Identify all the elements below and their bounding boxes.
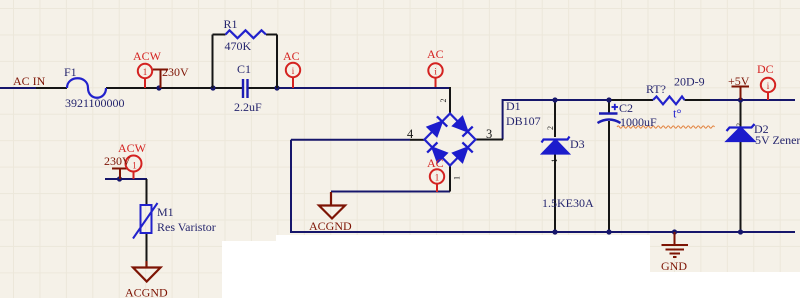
svg-text:D1: D1 — [506, 99, 521, 113]
svg-text:1: 1 — [143, 67, 148, 77]
svg-text:230V: 230V — [162, 65, 189, 79]
svg-text:ACW: ACW — [133, 49, 162, 63]
svg-text:1000uF: 1000uF — [620, 115, 657, 129]
svg-text:AC IN: AC IN — [13, 74, 46, 88]
svg-text:20D-9: 20D-9 — [674, 75, 705, 89]
svg-text:i: i — [434, 67, 437, 77]
svg-text:1.5KE30A: 1.5KE30A — [542, 196, 594, 210]
svg-text:t°: t° — [673, 107, 681, 121]
svg-text:C2: C2 — [619, 101, 633, 115]
svg-text:i: i — [292, 66, 295, 76]
svg-text:1: 1 — [435, 173, 440, 183]
svg-text:5V Zener: 5V Zener — [755, 133, 800, 147]
svg-text:2: 2 — [439, 99, 448, 103]
svg-text:AC: AC — [427, 156, 444, 170]
svg-text:2: 2 — [546, 126, 555, 130]
svg-text:RT?: RT? — [646, 82, 666, 96]
svg-text:D3: D3 — [570, 137, 585, 151]
svg-text:DB107: DB107 — [506, 114, 541, 128]
svg-text:2.2uF: 2.2uF — [234, 100, 262, 114]
svg-text:2: 2 — [736, 123, 744, 127]
svg-text:+5V: +5V — [728, 74, 750, 88]
svg-text:ACGND: ACGND — [309, 219, 352, 233]
svg-text:4: 4 — [407, 127, 414, 141]
svg-text:M1: M1 — [157, 205, 174, 219]
svg-text:R1: R1 — [224, 17, 238, 31]
svg-text:ACW: ACW — [118, 141, 147, 155]
svg-text:AC: AC — [427, 47, 444, 61]
svg-text:3921100000: 3921100000 — [65, 96, 125, 110]
svg-text:Res Varistor: Res Varistor — [157, 220, 216, 234]
svg-text:ACGND: ACGND — [125, 286, 168, 300]
svg-text:F1: F1 — [64, 65, 77, 79]
svg-text:470K: 470K — [225, 39, 252, 53]
svg-text:1: 1 — [550, 159, 559, 163]
svg-text:1: 1 — [453, 176, 462, 180]
svg-text:GND: GND — [661, 259, 687, 273]
svg-text:3: 3 — [486, 127, 492, 141]
svg-text:i: i — [767, 81, 770, 91]
svg-text:DC: DC — [757, 62, 774, 76]
svg-text:C1: C1 — [237, 62, 251, 76]
svg-text:230V: 230V — [104, 154, 131, 168]
svg-text:1: 1 — [132, 161, 137, 171]
svg-text:AC: AC — [283, 49, 300, 63]
